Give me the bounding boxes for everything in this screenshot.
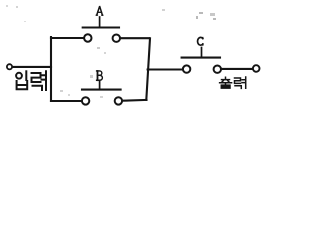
력(출력) : ㅕ xyxy=(242,77,246,88)
switch B contact right xyxy=(115,97,122,104)
switch C contact right xyxy=(214,66,221,73)
출 : ㅊ xyxy=(222,77,230,82)
력 : ㄱ xyxy=(33,86,43,90)
switch A contact right xyxy=(113,35,120,42)
switch C bar xyxy=(182,57,220,59)
력(출력) : ㄱ xyxy=(235,86,241,89)
wire A to right junction xyxy=(121,37,150,39)
output terminal circle xyxy=(253,65,260,72)
wire input to left junction xyxy=(13,66,51,68)
switch B bar xyxy=(82,89,121,91)
switch A actuator xyxy=(99,17,101,27)
wire top branch left xyxy=(51,37,83,39)
wire left junction vertical xyxy=(50,37,52,101)
wire bottom branch left xyxy=(51,100,81,102)
switch C contact left xyxy=(183,65,190,72)
label C xyxy=(198,37,203,45)
switch C actuator xyxy=(201,48,203,57)
출 : ㄹ xyxy=(221,85,230,88)
력 : ㅕ xyxy=(42,71,47,90)
력(출력) : ㄹ xyxy=(235,78,241,83)
label 입력 (input) xyxy=(16,71,46,90)
wire output branch xyxy=(148,68,183,70)
scan noise specks xyxy=(6,5,216,98)
label 출력 (output) xyxy=(220,77,246,88)
입 : ㅇ xyxy=(16,73,22,79)
wire C to output terminal xyxy=(222,68,252,70)
switch B contact left xyxy=(82,97,89,104)
label B xyxy=(97,71,103,80)
wire B to right junction xyxy=(123,99,147,102)
입 : ㅂ xyxy=(17,81,28,89)
switch A bar xyxy=(83,26,119,28)
출 : ㅜ xyxy=(220,83,232,85)
입 : ㅣ xyxy=(25,71,27,80)
switch A contact left xyxy=(84,34,91,41)
switch B actuator xyxy=(99,82,101,89)
input terminal circle xyxy=(7,64,12,69)
력 : ㄹ xyxy=(32,73,41,82)
wire right junction vertical xyxy=(146,38,150,100)
label A xyxy=(96,7,103,16)
